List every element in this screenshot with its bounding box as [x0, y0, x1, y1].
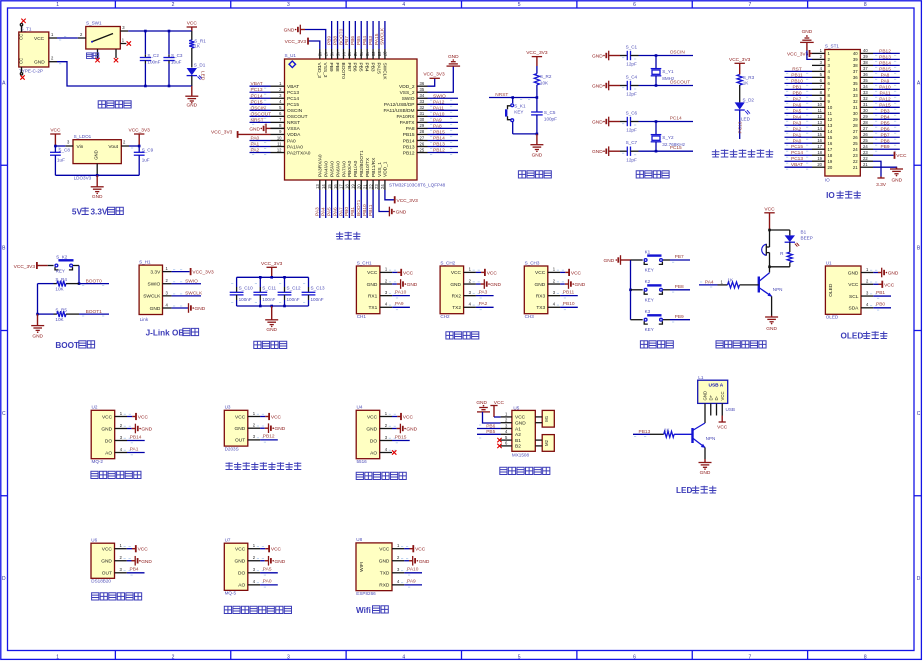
svg-text:BOOT: BOOT [55, 341, 79, 350]
svg-text:24: 24 [380, 184, 385, 189]
svg-text:PA10: PA10 [395, 289, 407, 295]
svg-text:PA5: PA5 [326, 207, 332, 216]
wire net SWIO (H1) [172, 279, 201, 285]
ground GND (S_CH1 pin2) [392, 279, 418, 289]
svg-text:PB13: PB13 [639, 429, 651, 435]
wire net PA0 (U7 pin4) [260, 579, 278, 588]
svg-text:OSCIN: OSCIN [251, 105, 267, 111]
svg-text:10K: 10K [55, 286, 64, 291]
svg-text:33: 33 [420, 99, 425, 104]
VCC power port (S_CH1 pin1) [392, 269, 413, 277]
ground GND (power circuit) [185, 86, 198, 109]
svg-text:26: 26 [853, 135, 858, 140]
wire net PA3 (ST1 left) [785, 120, 813, 128]
svg-text:OSCOUT: OSCOUT [287, 114, 308, 120]
no-connect X (motor B2) [497, 444, 501, 448]
pin 13 of U1 [315, 180, 320, 190]
svg-text:30: 30 [863, 108, 868, 113]
wire net PB10 (ST1 left) [785, 78, 813, 86]
svg-text:PC15: PC15 [251, 99, 263, 105]
wire net PB10 (S_CH3 pin4) [560, 301, 578, 310]
svg-text:VCC: VCC [102, 414, 113, 420]
wire net VBAT (ST1 left) [785, 162, 813, 170]
ground GND (crystal S_C7) [592, 146, 609, 156]
transistor Q1 NPN (alarm) [759, 267, 783, 297]
wire net PA6 (ST1 left) [785, 102, 813, 110]
svg-text:BEEP: BEEP [801, 236, 813, 241]
svg-text:PA7: PA7 [338, 207, 344, 216]
svg-text:16: 16 [817, 138, 822, 143]
svg-text:PA15: PA15 [374, 33, 380, 45]
wire net PB13 [428, 142, 459, 150]
pin 37 of ST1 [860, 66, 873, 71]
pin 44 of U1 [341, 49, 346, 59]
VCC power port (alarm) [764, 206, 775, 230]
svg-text:D: D [2, 576, 6, 582]
pin 9 of ST1 [812, 96, 825, 101]
svg-text:PA2: PA2 [479, 301, 488, 307]
svg-text:33: 33 [853, 93, 858, 98]
svg-text:16: 16 [333, 184, 338, 189]
svg-text:PA1/A0: PA1/A0 [287, 144, 303, 150]
wire net PA12 [428, 99, 459, 107]
ground GND (BOOT) [31, 314, 44, 339]
svg-text:S_U1: S_U1 [285, 53, 297, 58]
svg-text:SWCLK: SWCLK [381, 63, 387, 81]
pin 3 of LDO1 [55, 140, 73, 149]
svg-text:S_C3: S_C3 [171, 53, 183, 58]
pin 43 of U1 [347, 49, 352, 59]
pin 4 of U1 [271, 99, 285, 104]
svg-text:BOOT1: BOOT1 [86, 309, 103, 315]
MCU right pin names [383, 84, 415, 156]
svg-text:7: 7 [749, 2, 752, 8]
svg-text:A1: A1 [515, 426, 521, 432]
svg-text:PC13: PC13 [251, 87, 263, 93]
wire net OSCIN [250, 105, 271, 113]
wire net PB1 [350, 190, 356, 218]
ground GND (LED light) [699, 448, 712, 477]
svg-text:OSCIN: OSCIN [287, 108, 303, 114]
svg-text:PB12: PB12 [263, 434, 275, 440]
svg-text:14: 14 [321, 184, 326, 189]
svg-text:AO: AO [370, 450, 377, 456]
caption serial port circuit [446, 332, 479, 339]
svg-text:3.3V: 3.3V [91, 208, 108, 217]
svg-text:A2: A2 [515, 432, 521, 438]
svg-text:U2: U2 [92, 405, 98, 410]
svg-text:KEY: KEY [56, 268, 65, 273]
pin 1 of U1 [271, 81, 285, 86]
svg-text:VCC_3V3: VCC_3V3 [129, 128, 151, 134]
svg-text:S_C5: S_C5 [544, 110, 556, 115]
push button K3 KEY [631, 309, 671, 332]
svg-text:KEY: KEY [645, 327, 654, 332]
svg-text:U3: U3 [225, 405, 231, 410]
svg-text:31: 31 [863, 102, 868, 107]
svg-text:VCC: VCC [271, 547, 282, 553]
svg-text:S_K1: S_K1 [514, 103, 526, 108]
ground GND at U1 VSS_1 [379, 190, 407, 216]
pin 3 of U1 [271, 93, 285, 98]
resistor S_R1 1K [189, 31, 206, 68]
VCC power port (U8 pin1) [404, 545, 425, 553]
svg-text:13: 13 [828, 123, 833, 128]
svg-text:46: 46 [329, 52, 334, 57]
svg-text:VCC: VCC [367, 270, 378, 276]
svg-text:GND: GND [450, 282, 461, 288]
svg-text:PB5: PB5 [486, 429, 495, 435]
wire net PB7 (ST1 right) [873, 132, 900, 140]
svg-text:S_ST1: S_ST1 [825, 44, 839, 49]
pin 4 of H1 [163, 302, 183, 308]
pin 4 of S_CH1 [380, 302, 396, 308]
motor connector M1 [535, 410, 554, 427]
svg-text:VCC: VCC [487, 270, 498, 276]
svg-text:GND: GND [703, 391, 708, 401]
pin 3 of U4 [380, 435, 396, 441]
pin 27 of U1 [417, 135, 428, 140]
svg-text:S_D2: S_D2 [743, 98, 755, 103]
wire net PA4 (ST1 left) [785, 114, 813, 122]
pin 1 of U6 [115, 543, 131, 549]
wire net VBAT [250, 81, 271, 89]
motor driver U5 MX1508 [512, 406, 535, 458]
svg-text:PA9: PA9 [881, 78, 890, 84]
pin 3 of U3 [248, 434, 264, 440]
svg-text:CH1: CH1 [357, 314, 367, 319]
VCC power port (U6 pin1) [127, 545, 148, 553]
svg-text:30: 30 [853, 111, 858, 116]
svg-text:LED: LED [741, 117, 751, 122]
VCC_3V3 power port (BOOT) [14, 262, 48, 270]
switch S_SW1 [78, 21, 129, 59]
svg-text:VCC: VCC [415, 547, 426, 553]
svg-text:38: 38 [863, 60, 868, 65]
svg-text:PB8: PB8 [334, 63, 340, 72]
svg-text:12pF: 12pF [626, 92, 637, 97]
pin 32 of ST1 [860, 96, 873, 101]
svg-text:GND: GND [766, 326, 777, 332]
svg-text:VBAT: VBAT [287, 84, 299, 90]
pin 36 of ST1 [860, 72, 873, 77]
pin 10 of U1 [271, 135, 285, 140]
svg-text:PB10/TX: PB10/TX [365, 157, 371, 177]
capacitor S_C6 12pF [609, 111, 639, 133]
wire net PB6 (ST1 right) [873, 126, 900, 134]
wire net SWCLK [380, 21, 386, 49]
svg-text:PC13: PC13 [791, 156, 803, 162]
svg-text:35: 35 [420, 87, 425, 92]
pin 22 of U1 [368, 180, 373, 190]
svg-text:PB13: PB13 [879, 54, 891, 60]
wire alarm top node [768, 229, 790, 232]
ground GND (alarm) [765, 296, 778, 332]
svg-text:J-Link OB: J-Link OB [146, 329, 185, 338]
svg-text:40: 40 [853, 51, 858, 56]
pin 47 of U1 [324, 49, 329, 59]
svg-text:PA0: PA0 [287, 138, 296, 144]
svg-text:2: 2 [172, 2, 175, 8]
svg-text:GND: GND [141, 559, 152, 565]
svg-text:S_D1: S_D1 [194, 63, 206, 68]
svg-text:D+: D+ [708, 394, 713, 400]
wire net BOOT0 [338, 21, 344, 49]
svg-text:U8: U8 [356, 537, 362, 542]
VCC power port (U4 pin1) [392, 413, 413, 421]
svg-text:44: 44 [341, 52, 346, 57]
wire net PC14 [639, 115, 694, 122]
svg-text:3.3V: 3.3V [876, 182, 887, 188]
svg-text:PA8: PA8 [881, 72, 890, 78]
svg-text:25: 25 [420, 147, 425, 152]
MCU bottom pin names [318, 150, 389, 177]
MCU left pin names [287, 84, 311, 156]
svg-text:48: 48 [318, 52, 323, 57]
wire net PC15 (ST1 left) [785, 144, 813, 152]
wire net PB12 [428, 148, 459, 156]
wire net PB11 (ST1 left) [785, 72, 813, 80]
svg-text:PB4: PB4 [364, 63, 370, 72]
svg-text:22: 22 [368, 184, 373, 189]
wire reset bottom [513, 133, 538, 136]
svg-text:SWIO: SWIO [185, 279, 198, 285]
svg-text:K3: K3 [645, 309, 651, 314]
wire net PC13 (ST1 left) [785, 156, 813, 164]
svg-text:NPN: NPN [706, 436, 716, 441]
svg-text:VCC: VCC [138, 415, 149, 421]
VCC power port (motor) [490, 400, 504, 417]
wire net PA0 (ST1 left) [785, 138, 813, 146]
crystal S_Y2 32.768KHz [651, 122, 686, 152]
svg-text:PB1: PB1 [350, 207, 356, 216]
push button K2 KEY [631, 279, 671, 302]
wire net PA9 (ST1 right) [873, 78, 900, 86]
ground GND (U7 pin2) [260, 556, 286, 566]
svg-text:NPN: NPN [773, 287, 783, 292]
svg-text:21: 21 [863, 162, 868, 167]
capacitor S_C11 100nF [253, 277, 276, 306]
pin 2 of H1 [163, 278, 183, 284]
pin 3 of U6 [115, 567, 131, 573]
svg-text:PA3: PA3 [315, 207, 321, 216]
svg-text:6: 6 [633, 2, 636, 8]
wire net PA2 (ST1 left) [785, 126, 813, 134]
svg-text:11: 11 [277, 141, 282, 146]
pin 38 of U1 [377, 49, 382, 59]
caption 5V to 3.3V circuit [72, 207, 123, 216]
svg-text:36: 36 [420, 81, 425, 86]
svg-text:GND: GND [249, 126, 260, 132]
svg-text:5V: 5V [72, 208, 83, 217]
pin 25 of U1 [417, 147, 428, 152]
push button S_K2 KEY [48, 254, 79, 273]
svg-text:PC14: PC14 [251, 93, 263, 99]
svg-text:PA10: PA10 [407, 567, 419, 573]
svg-text:27: 27 [863, 126, 868, 131]
svg-text:RXD: RXD [379, 583, 390, 589]
pin 6 of U5 [501, 441, 512, 446]
svg-text:CC: CC [19, 34, 24, 40]
svg-text:GND: GND [532, 152, 543, 158]
LED S_D1 [187, 63, 206, 87]
svg-text:S_SW1: S_SW1 [86, 21, 102, 26]
svg-text:KEY: KEY [645, 297, 654, 302]
svg-text:PA11/USB/DM: PA11/USB/DM [383, 108, 414, 114]
svg-text:PA0: PA0 [793, 138, 802, 144]
wire net BOOT1 [356, 190, 362, 218]
svg-text:GND: GND [235, 559, 246, 565]
svg-text:GND: GND [592, 54, 603, 60]
wire button trunk [629, 260, 632, 320]
svg-text:PA4: PA4 [793, 114, 802, 120]
VCC power port (U1 pin2) [873, 281, 894, 289]
wire net PB3 [368, 21, 374, 49]
caption filter circuit [254, 341, 287, 348]
pin 1 of U8 [392, 543, 408, 549]
svg-text:PC13: PC13 [738, 121, 744, 133]
svg-text:VCC: VCC [379, 547, 390, 553]
svg-text:GND: GND [700, 470, 711, 476]
svg-text:PB14: PB14 [403, 138, 415, 144]
svg-text:38: 38 [853, 63, 858, 68]
svg-text:GND: GND [888, 271, 899, 277]
ground GND (U8 pin2) [404, 556, 430, 566]
svg-text:10: 10 [277, 135, 282, 140]
svg-text:PA7/A0: PA7/A0 [341, 161, 347, 177]
svg-text:PB2/BOOT1: PB2/BOOT1 [359, 150, 365, 177]
svg-text:38: 38 [377, 52, 382, 57]
VCC_3V3 power port feeding VDDA [211, 130, 271, 138]
VCC power port (S_CH2 pin1) [476, 269, 497, 277]
svg-text:24: 24 [853, 147, 858, 152]
ground GND (reset) [530, 134, 543, 159]
svg-text:PB1: PB1 [876, 290, 885, 296]
VCC_3V3 power port at U1 VDD_2 [423, 72, 445, 87]
svg-text:VCC: VCC [571, 270, 582, 276]
svg-text:DO: DO [370, 438, 377, 444]
svg-text:PB3: PB3 [369, 63, 375, 72]
svg-text:4: 4 [402, 2, 405, 8]
ground GND at U1 VSS_3 [284, 25, 326, 49]
svg-text:GND: GND [535, 282, 546, 288]
module U4 5516 [356, 405, 380, 464]
ground GND (crystal S_C1) [592, 51, 609, 61]
pin 2 of T1 [49, 56, 61, 64]
svg-text:21: 21 [853, 165, 858, 170]
svg-text:PC14: PC14 [287, 96, 299, 102]
wire net PA7 (ST1 left) [785, 96, 813, 104]
svg-text:29: 29 [863, 114, 868, 119]
wire net PA11 [428, 105, 459, 113]
svg-text:GND: GND [266, 327, 277, 333]
svg-text:17: 17 [817, 144, 822, 149]
svg-text:PB7: PB7 [880, 132, 889, 138]
svg-text:S_C2: S_C2 [147, 53, 159, 58]
svg-text:26: 26 [863, 132, 868, 137]
caption DC motor circuit [500, 467, 550, 474]
svg-text:8MHz: 8MHz [662, 76, 675, 81]
svg-text:Link: Link [140, 317, 149, 322]
svg-text:VCC_3V3: VCC_3V3 [729, 57, 751, 63]
pin 6 of ST1 [812, 78, 825, 83]
svg-text:S_C11: S_C11 [262, 286, 276, 291]
svg-text:PA12/USB/DP: PA12/USB/DP [384, 102, 415, 108]
no-connect X on T1 bottom pin [20, 75, 24, 79]
svg-text:WIFI: WIFI [359, 562, 365, 572]
wire net PB13 (ST1 right) [873, 54, 900, 62]
svg-text:20: 20 [817, 162, 822, 167]
module S_CH3 CH3 [524, 260, 548, 319]
svg-text:GND: GND [592, 84, 603, 90]
svg-text:AO: AO [105, 450, 112, 456]
wire filter top rail [237, 276, 309, 279]
pin 5 of U5 [501, 435, 512, 440]
wire net PA12 (ST1 right) [873, 96, 900, 104]
svg-text:S_R4: S_R4 [55, 277, 67, 282]
wire net PA4 (alarm) [699, 279, 718, 287]
wire net PB8 (ST1 right) [873, 138, 900, 146]
svg-text:KEY: KEY [514, 110, 523, 115]
wire net PB15 [428, 129, 459, 137]
wire net PB1 (ST1 left) [785, 84, 813, 92]
pin 18 of ST1 [812, 150, 825, 155]
svg-text:PB10: PB10 [791, 78, 803, 84]
svg-text:PB8: PB8 [880, 138, 889, 144]
pins of L1 [705, 403, 722, 415]
svg-text:5: 5 [518, 2, 521, 8]
svg-text:PA1: PA1 [251, 142, 260, 148]
svg-text:PB9: PB9 [326, 36, 332, 45]
pin 2 of S_CH2 [464, 278, 480, 284]
svg-text:PA7: PA7 [793, 96, 802, 102]
wire net PC15 [639, 145, 694, 153]
wire net PB9 [326, 21, 332, 49]
wire T1 pin1 to SW1 [57, 37, 78, 39]
pin 29 of ST1 [860, 114, 873, 119]
pin 31 of U1 [417, 111, 428, 116]
pin 41 of U1 [359, 49, 364, 59]
wire net PA1 (ST1 left) [785, 132, 813, 140]
svg-text:L1: L1 [698, 375, 704, 380]
svg-text:PB15: PB15 [403, 132, 415, 138]
pin 28 of ST1 [860, 120, 873, 125]
svg-text:20: 20 [828, 165, 833, 170]
caption button circuit [640, 341, 673, 348]
svg-text:39: 39 [853, 57, 858, 62]
svg-text:VSS_2: VSS_2 [400, 90, 415, 96]
svg-text:VCC_3V3: VCC_3V3 [211, 130, 233, 136]
svg-text:PA6: PA6 [793, 102, 802, 108]
svg-text:RST: RST [792, 66, 802, 72]
pin 18 of U1 [345, 180, 350, 190]
svg-text:12: 12 [828, 117, 833, 122]
svg-text:VBAT: VBAT [251, 81, 263, 87]
pin 46 of U1 [329, 49, 334, 59]
wire net PB14 (ST1 right) [873, 60, 900, 68]
svg-text:GND: GND [448, 54, 459, 60]
pin 26 of ST1 [860, 132, 873, 137]
svg-text:1K: 1K [743, 81, 750, 86]
wire net OSCOUT [639, 79, 694, 86]
capacitor S_C5 100pF [531, 98, 557, 134]
module U3 D203S [224, 405, 248, 452]
pin 7 of ST1 [812, 84, 825, 89]
wire net PB8 [332, 21, 338, 49]
svg-text:USB A: USB A [709, 383, 724, 389]
svg-text:13: 13 [817, 120, 822, 125]
connector L1 USB A [698, 375, 735, 412]
